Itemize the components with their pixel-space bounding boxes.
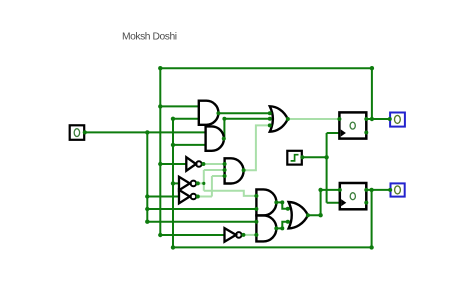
node FF2 Q pin [364,188,368,192]
node OR2 out [306,213,310,217]
node AND5 in1 [254,220,258,224]
node AND1 out [216,111,220,115]
node corner top-right [370,66,374,70]
wire FF2 Q to output and feedback down [366,190,390,248]
node NOT2 net junction [202,182,205,185]
not-gate NOT1 [186,157,201,171]
wire AND3 out to OR1 in3 [244,125,273,170]
wire OR2 out to FF2 D [308,190,340,215]
wire NOT3 input [147,196,179,198]
node output box1 pin [388,117,392,121]
wire bus B x=173 [172,119,174,248]
node AND4 in2 [254,207,258,211]
node AND5 jog bend [280,226,284,230]
node input box pin [83,130,87,134]
node junction busX NOT3 [145,194,149,198]
and-gate AND4 [256,189,276,215]
node AND4 out [274,200,278,204]
node junction busB AND1in2 [171,117,175,121]
node clock junction [324,155,328,159]
wire AND1 out to OR1 in1 [218,112,272,114]
node AND5 in2 [254,233,258,237]
node OR2 in2 [286,220,290,224]
node junction busX AND4in2 [145,207,149,211]
node NOT4 out [241,233,245,237]
node OR1 out [286,117,290,121]
node OR1 in2 [268,117,272,121]
node junction busA NOT4 corner [158,233,162,237]
or-gate OR2 [289,202,308,228]
and-gate AND3 [225,158,244,183]
node junction busX AND5 corner [145,220,149,224]
wire input row y=132.4 [84,131,205,133]
wire bottom feedback row y=247.4 [173,246,372,248]
flip-flop U1 (D flip-flop) [339,112,366,138]
node junction busB bottom corner [171,245,175,249]
wire NOT3 out net [197,176,225,197]
node AND3 in1 [223,162,227,166]
node OR2 in1 [286,207,290,211]
clock CLK [287,151,302,165]
not-gate NOT2 [179,177,196,190]
wire OR1 out to FF1 D [288,118,340,120]
and-gate AND2 [206,126,224,150]
node junction busA AND1in1 [158,104,162,108]
wire NOT1 input [160,163,186,165]
wire NOT1 out to AND3 in1 [201,163,224,165]
node OR2 corner2 [318,188,322,192]
wire bus A x=160.3 [159,68,161,235]
output box Q1 [390,113,405,127]
node junction input/busX [145,130,149,134]
node OR2 corner1 [318,213,322,217]
node FF1 Q pin [364,117,368,121]
node AND4 in1 [254,194,258,198]
not-gate NOT3 [179,190,196,203]
node FF2 D pin [338,188,342,192]
wire NOT2 out net [197,170,257,196]
wire AND5 in1 row [147,221,256,223]
node junction busB AND2in2 [171,143,175,147]
node NOT3 out [196,195,200,199]
and-gate AND1 [199,101,219,125]
and-gate AND5 [256,215,276,241]
wire AND2 in2 row [173,144,206,146]
wire top feedback row y=68.2 [160,67,372,69]
svg-text:Moksh Doshi: Moksh Doshi [122,32,177,43]
flip-flop U2 (D flip-flop) [340,183,367,209]
not-gate NOT4 [225,228,242,242]
node corner bottom-right [369,245,373,249]
node AND5 out [274,226,278,230]
wire AND1 in2 row [173,118,199,120]
output box Q2 [391,183,405,196]
node NOT2 out [196,181,200,185]
node AND3 in2 [223,168,227,172]
node AND3 out [242,168,246,172]
node AND2 jog corner [222,117,226,121]
wire bus X x=147.3 [146,132,148,221]
wire AND2 out jog to OR1 in2 [224,119,272,139]
node FF2 Q junction [369,188,373,192]
node junction busA NOT1 [158,162,162,166]
node junction busA top corner [158,66,162,70]
wire AND1 in1 row [160,105,199,107]
wire NOT2 input [173,182,179,184]
or-gate OR1 [270,106,288,131]
node AND2 out [222,137,226,141]
node NOT1 out [201,162,205,166]
wire AND5 out jog to OR2 in2 [276,222,291,229]
wire FF1 Q to output and feedback up [366,68,390,119]
node OR1 in1 [268,111,272,115]
node FF1 Q junction [370,117,374,121]
wire clock net [302,133,340,203]
node AND3 in3 [223,174,227,178]
wire NOT4 out [242,234,257,236]
node FF2 Qbar pin [364,201,368,205]
wire AND4 in2 row [147,208,256,210]
wire NOT4 input row [160,234,224,236]
node clock out pin [300,155,304,159]
node AND4 jog bend [280,200,284,204]
node OR1 in3 [268,123,272,127]
node junction busB NOT2 [171,181,175,185]
input box X [70,125,85,140]
node FF1 D pin [337,117,341,121]
wire AND4 out jog to OR2 in1 [276,202,291,208]
node FF1 Qbar pin [364,131,368,135]
node output box2 pin [388,188,392,192]
